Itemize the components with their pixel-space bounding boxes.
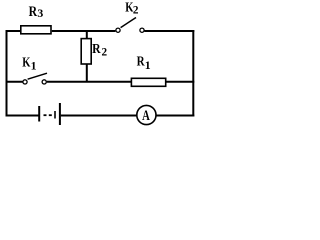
wire: top left segment (6, 30, 22, 32)
wire: bottom left segment (6, 115, 39, 117)
wire: top right segment (145, 30, 195, 32)
svg-text:R: R (92, 41, 101, 56)
resistor R1 (131, 78, 165, 86)
svg-text:A: A (142, 108, 150, 124)
wire: middle left segment (6, 81, 23, 83)
svg-text:1: 1 (31, 59, 37, 73)
wire: middle right segment (166, 81, 194, 83)
wire: battery to ammeter (61, 115, 137, 117)
switch K2 (116, 18, 144, 33)
resistor R2 (81, 39, 91, 64)
wire: top middle segment (52, 30, 116, 32)
wire: bottom right segment (157, 115, 195, 117)
svg-text:2: 2 (133, 4, 139, 16)
wire: right vertical (192, 30, 194, 117)
svg-text:2: 2 (102, 46, 108, 58)
switch K1 (23, 73, 47, 84)
svg-text:1: 1 (145, 58, 151, 72)
wire: R2 branch lower stub (86, 64, 88, 83)
ammeter A (137, 105, 156, 124)
wire: R2 branch upper stub (86, 30, 88, 39)
label K1 (22, 54, 36, 72)
battery B1 (39, 103, 60, 125)
svg-text:R: R (29, 3, 38, 19)
resistor R3 (21, 26, 51, 34)
label R3 (29, 3, 44, 20)
wire: left vertical (6, 30, 8, 117)
label R2 (92, 41, 107, 59)
label K2 (125, 0, 138, 17)
label R1 (137, 53, 151, 71)
svg-text:3: 3 (37, 6, 43, 20)
wire: middle segment to R1 (47, 81, 132, 83)
